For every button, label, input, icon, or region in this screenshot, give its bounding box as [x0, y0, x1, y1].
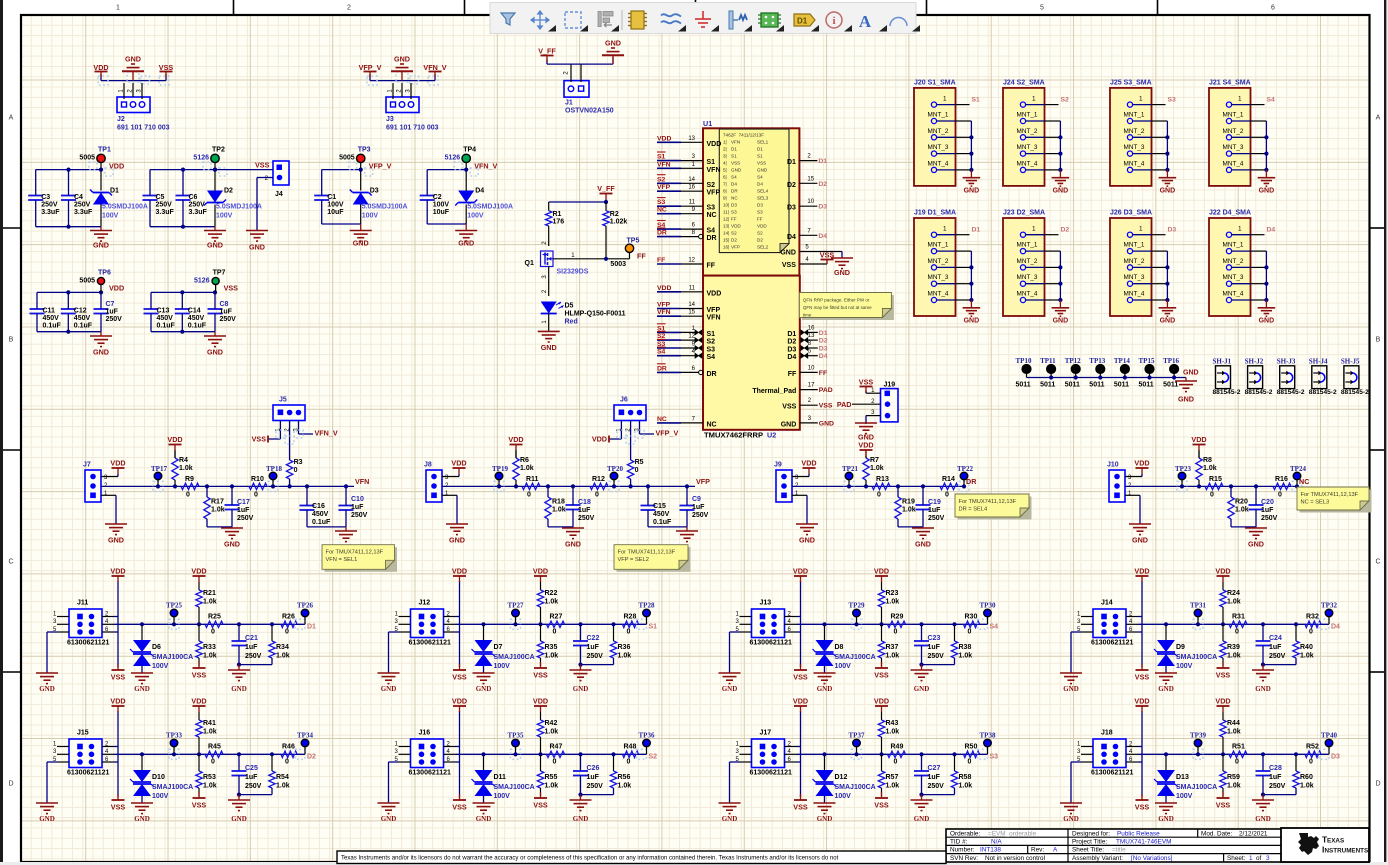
test point TP24	[1290, 465, 1306, 491]
svg-text:S3: S3	[990, 754, 999, 761]
power VSS below R39	[1216, 662, 1231, 680]
svg-text:0: 0	[285, 759, 289, 766]
test point TP22	[957, 465, 973, 491]
svg-text:VFP: VFP	[707, 307, 721, 314]
svg-text:VSS: VSS	[793, 673, 808, 682]
U2 pin 10 (FF)	[800, 365, 827, 377]
capacitor C26	[573, 752, 603, 794]
svg-text:R58: R58	[959, 774, 972, 781]
ground	[90, 168, 112, 250]
svg-text:R54: R54	[276, 774, 289, 781]
note VFN = SEL1	[325, 547, 398, 572]
svg-text:R55: R55	[545, 774, 558, 781]
wire	[792, 474, 809, 524]
svg-text:TP12: TP12	[1065, 357, 1081, 365]
svg-text:NC = SEL3: NC = SEL3	[1301, 500, 1330, 506]
resistor R50	[964, 744, 980, 766]
svg-text:FF: FF	[819, 370, 827, 377]
svg-text:GND: GND	[964, 187, 980, 194]
svg-text:D1: D1	[110, 188, 119, 195]
svg-text:GND: GND	[914, 685, 930, 693]
connector J7	[83, 462, 108, 503]
wire	[548, 526, 573, 528]
wire	[307, 526, 346, 528]
ground below C23	[911, 665, 933, 693]
svg-text:R32: R32	[1306, 614, 1319, 621]
svg-text:0: 0	[968, 629, 972, 636]
svg-text:DR: DR	[966, 477, 977, 486]
svg-text:VSS: VSS	[819, 403, 833, 410]
TVS diode D3	[350, 170, 408, 224]
resistor R45	[197, 744, 223, 766]
resistor R44 (to VDD)	[1220, 712, 1241, 754]
resistor R26	[281, 614, 297, 636]
svg-text:R43: R43	[886, 720, 899, 727]
wire	[442, 485, 695, 487]
svg-text:VFP: VFP	[657, 184, 671, 191]
power VSS below R59	[1216, 792, 1231, 810]
power VDD at J6	[592, 435, 609, 444]
resistor R34	[269, 622, 290, 664]
svg-text:0.1uF: 0.1uF	[74, 323, 93, 330]
test point TP33	[166, 732, 182, 760]
svg-text:A: A	[9, 115, 14, 122]
svg-text:1.0k: 1.0k	[203, 783, 217, 790]
svg-text:VSS: VSS	[533, 671, 548, 680]
svg-text:100V: 100V	[102, 213, 119, 220]
svg-text:R23: R23	[886, 590, 899, 597]
svg-text:1.0k: 1.0k	[959, 783, 973, 790]
svg-text:TP27: TP27	[508, 602, 524, 610]
svg-text:FF: FF	[757, 217, 763, 222]
svg-text:TP29: TP29	[849, 602, 865, 610]
svg-text:1: 1	[1032, 226, 1036, 233]
svg-text:R5: R5	[635, 459, 644, 466]
svg-text:VSS: VSS	[782, 262, 796, 269]
svg-text:250V: 250V	[74, 202, 91, 209]
svg-text:VSS: VSS	[874, 671, 889, 680]
svg-text:GND: GND	[476, 685, 492, 693]
svg-text:GND: GND	[964, 318, 980, 325]
U2 pin 8 (D3)	[801, 341, 828, 353]
svg-text:100V: 100V	[1176, 793, 1193, 800]
svg-text:250V: 250V	[587, 783, 604, 790]
svg-text:S2: S2	[757, 231, 763, 236]
U2 pin 3 (GND)	[800, 416, 834, 428]
power VSS at J5	[252, 435, 268, 444]
power VSS below R35	[533, 662, 548, 680]
capacitor C22	[573, 622, 603, 664]
resistor R52	[1305, 744, 1321, 766]
svg-text:450V: 450V	[157, 315, 174, 322]
svg-text:VDD: VDD	[874, 567, 889, 576]
svg-text:0: 0	[553, 759, 557, 766]
svg-text:0: 0	[1235, 629, 1239, 636]
wire	[101, 474, 118, 524]
svg-text:5.0SMDJ100A: 5.0SMDJ100A	[102, 204, 148, 211]
svg-text:VDD: VDD	[707, 290, 722, 297]
svg-text:MNT_2: MNT_2	[1124, 258, 1145, 265]
U2 pin 1 (S1)	[657, 324, 702, 335]
capacitor C6	[176, 170, 208, 227]
resistor R59 (to VSS)	[1220, 754, 1241, 796]
svg-text:1: 1	[943, 226, 947, 233]
svg-text:10: 10	[808, 365, 815, 371]
ground	[204, 332, 226, 357]
svg-text:1.0k: 1.0k	[959, 653, 973, 660]
resistor R15	[1205, 476, 1223, 499]
svg-text:16: 16	[688, 185, 695, 191]
test point TP14	[1114, 357, 1130, 389]
svg-text:S1: S1	[757, 154, 763, 159]
svg-text:S3: S3	[731, 210, 737, 215]
svg-text:1uF: 1uF	[220, 309, 233, 316]
svg-text:time: time	[803, 313, 812, 318]
svg-text:N/A: N/A	[991, 839, 1002, 846]
svg-text:100V: 100V	[494, 793, 511, 800]
svg-text:VSS: VSS	[757, 161, 766, 166]
svg-text:5.0SMDJ100A: 5.0SMDJ100A	[362, 204, 408, 211]
svg-text:D5: D5	[565, 303, 574, 310]
U1 pin 4 (VSS)	[782, 257, 827, 269]
resistor R5	[627, 459, 643, 489]
power VDD at J15	[110, 697, 125, 713]
ground	[329, 527, 357, 555]
svg-text:GND: GND	[1248, 540, 1264, 549]
svg-text:FF: FF	[637, 251, 646, 260]
svg-text:V_FF: V_FF	[538, 47, 556, 56]
svg-text:1.0k: 1.0k	[545, 653, 559, 660]
capacitor C18	[566, 484, 595, 527]
power VDD above R24	[1215, 567, 1230, 583]
svg-text:0: 0	[211, 759, 215, 766]
svg-text:250V: 250V	[578, 515, 595, 522]
svg-text:SMAJ100CA: SMAJ100CA	[494, 784, 535, 791]
svg-text:TP39: TP39	[1190, 732, 1206, 740]
svg-text:NC: NC	[1299, 477, 1309, 486]
test point TP32	[1319, 602, 1337, 630]
svg-text:0: 0	[553, 629, 557, 636]
svg-text:250V: 250V	[1269, 783, 1286, 790]
capacitor C19	[916, 484, 945, 527]
svg-text:VDD: VDD	[109, 284, 124, 293]
TVS diode D6	[130, 622, 193, 673]
svg-text:GND: GND	[1255, 815, 1271, 823]
svg-text:TP3: TP3	[358, 147, 371, 154]
svg-text:7|: 7|	[723, 182, 727, 187]
capacitor C28	[1256, 752, 1286, 794]
svg-text:J25 S3_SMA: J25 S3_SMA	[1110, 79, 1152, 86]
wire	[47, 581, 305, 673]
svg-text:0: 0	[894, 759, 898, 766]
resistor R33 (to VSS)	[196, 624, 217, 666]
svg-text:1uF: 1uF	[578, 507, 591, 514]
svg-text:MNT_3: MNT_3	[1223, 144, 1244, 151]
svg-text:VFP_V: VFP_V	[656, 429, 679, 438]
svg-text:R28: R28	[624, 614, 637, 621]
svg-text:250V: 250V	[41, 202, 58, 209]
connector J15	[53, 730, 110, 777]
svg-text:S1: S1	[649, 624, 658, 631]
wire	[389, 581, 647, 673]
wire	[207, 526, 232, 528]
jumper SH-J3	[1277, 358, 1305, 397]
svg-text:3.3uF: 3.3uF	[156, 209, 175, 216]
svg-text:VFN: VFN	[657, 309, 671, 316]
svg-text:J3: J3	[386, 116, 394, 123]
U1 pin 10 (D3)	[799, 199, 827, 211]
svg-text:D1: D1	[797, 17, 808, 26]
svg-text:R47: R47	[550, 744, 563, 751]
svg-text:100V: 100V	[216, 213, 233, 220]
resistor R12	[590, 476, 608, 499]
ground at J7	[105, 524, 127, 545]
svg-text:0: 0	[877, 492, 881, 499]
ground	[350, 168, 372, 248]
resistor R7 (pull-up)	[863, 450, 884, 489]
svg-text:R36: R36	[618, 644, 631, 651]
svg-text:14: 14	[688, 302, 695, 308]
svg-text:SMAJ100CA: SMAJ100CA	[152, 784, 193, 791]
ground below D9	[1155, 673, 1177, 693]
connector J21	[1209, 79, 1251, 185]
svg-text:VSS: VSS	[533, 801, 548, 810]
svg-text:1: 1	[943, 96, 947, 103]
resistor R11	[522, 476, 540, 499]
svg-text:R45: R45	[208, 744, 221, 751]
power VDD above R8	[1191, 435, 1206, 458]
svg-text:J21 S4_SMA: J21 S4_SMA	[1209, 79, 1251, 86]
svg-text:TP1: TP1	[98, 147, 111, 154]
power VDD at J8	[451, 459, 466, 475]
power VSS below R33	[192, 662, 207, 680]
svg-text:D1: D1	[757, 147, 763, 152]
wire	[542, 267, 549, 297]
svg-text:10uF: 10uF	[433, 209, 450, 216]
svg-text:1.0k: 1.0k	[886, 599, 900, 606]
svg-text:1.0k: 1.0k	[886, 729, 900, 736]
svg-text:3.3uF: 3.3uF	[74, 209, 93, 216]
svg-text:GND: GND	[573, 685, 589, 693]
svg-text:R18: R18	[552, 499, 565, 506]
svg-text:GND: GND	[449, 536, 465, 545]
svg-text:61300621121: 61300621121	[67, 640, 110, 647]
svg-text:TP22: TP22	[957, 465, 973, 473]
wire	[1045, 235, 1063, 308]
svg-text:1uF: 1uF	[245, 644, 258, 651]
svg-text:D7: D7	[494, 644, 503, 651]
svg-text:C1: C1	[327, 194, 336, 201]
svg-text:VDD: VDD	[109, 162, 124, 171]
U1 pin 13 (VDD)	[657, 135, 703, 142]
svg-text:GND: GND	[1160, 318, 1176, 325]
svg-text:5011: 5011	[1040, 382, 1055, 389]
svg-text:16|: 16|	[723, 245, 729, 250]
U2 pin 12 (S2)	[657, 332, 702, 343]
svg-text:GND: GND	[1053, 187, 1069, 194]
test point TP25	[166, 602, 182, 630]
svg-text:S4: S4	[990, 624, 999, 631]
svg-text:S2: S2	[707, 339, 716, 346]
U2 pin 16 (D1)	[801, 325, 828, 337]
svg-text:VDD: VDD	[110, 697, 125, 706]
wire	[47, 711, 305, 803]
svg-text:OSTVN02A150: OSTVN02A150	[565, 108, 614, 115]
svg-text:2: 2	[347, 5, 351, 12]
svg-text:VFN: VFN	[707, 315, 721, 322]
svg-text:C16: C16	[312, 503, 325, 510]
svg-text:C5: C5	[156, 194, 165, 201]
svg-text:250V: 250V	[928, 515, 945, 522]
svg-text:VDD: VDD	[1191, 435, 1206, 444]
svg-text:R19: R19	[902, 499, 915, 506]
wire	[553, 226, 630, 261]
resistor R46	[281, 744, 297, 766]
svg-text:1: 1	[1032, 96, 1036, 103]
svg-text:D2: D2	[818, 181, 827, 188]
svg-text:MNT_2: MNT_2	[1124, 128, 1145, 135]
wire	[898, 526, 923, 528]
svg-text:C26: C26	[587, 765, 600, 772]
svg-text:D3: D3	[787, 347, 796, 354]
capacitor C1	[314, 170, 344, 224]
svg-text:0: 0	[1309, 629, 1313, 636]
svg-text:FF: FF	[707, 263, 716, 270]
wire	[956, 235, 974, 308]
svg-text:MNT_3: MNT_3	[1124, 274, 1145, 281]
connector J11	[53, 600, 110, 647]
svg-text:R53: R53	[203, 774, 216, 781]
svg-text:MNT_2: MNT_2	[928, 258, 949, 265]
ground below D11	[473, 803, 495, 823]
svg-text:TP36: TP36	[639, 732, 655, 740]
test point TP18	[266, 465, 282, 491]
svg-text:100V: 100V	[433, 202, 450, 209]
svg-text:VFN: VFN	[707, 167, 721, 174]
svg-text:D2: D2	[787, 339, 796, 346]
svg-text:TP16: TP16	[1163, 357, 1179, 365]
svg-text:MNT_4: MNT_4	[928, 160, 949, 167]
svg-text:VDD: VDD	[110, 459, 125, 468]
svg-text:MNT_1: MNT_1	[1124, 242, 1145, 249]
power VDD at J14	[1134, 567, 1149, 583]
test point TP35	[508, 732, 524, 760]
svg-text:1: 1	[1139, 226, 1143, 233]
test point TP30	[978, 602, 996, 630]
svg-text:0: 0	[1278, 492, 1282, 499]
svg-text:MNT_2: MNT_2	[928, 128, 949, 135]
svg-text:1uF: 1uF	[587, 644, 600, 651]
ground below D6	[131, 673, 153, 693]
connector J1	[564, 64, 614, 114]
svg-text:R38: R38	[959, 644, 972, 651]
resistor R29	[879, 614, 905, 636]
svg-text:2/12/2021: 2/12/2021	[1239, 830, 1268, 837]
svg-text:TP15: TP15	[1139, 357, 1155, 365]
svg-text:0: 0	[186, 492, 190, 499]
svg-text:C27: C27	[928, 765, 941, 772]
capacitor C24	[1256, 622, 1286, 664]
test point TP7	[194, 270, 226, 293]
resistor R17	[204, 484, 225, 527]
ground	[670, 527, 698, 555]
svg-text:R52: R52	[1306, 744, 1319, 751]
test point TP26	[295, 602, 313, 630]
resistor R25	[197, 614, 223, 636]
wire	[36, 168, 101, 229]
svg-text:J13: J13	[760, 600, 772, 607]
svg-text:TP31: TP31	[1190, 602, 1206, 610]
svg-text:R37: R37	[886, 644, 899, 651]
U1 pin 14 (S2)	[657, 175, 703, 184]
svg-text:GND: GND	[1132, 536, 1148, 545]
capacitor C7	[94, 292, 123, 331]
resistor R55 (to VSS)	[537, 754, 558, 796]
svg-text:D2: D2	[787, 182, 796, 189]
connector J10	[1107, 462, 1132, 503]
svg-text:R12: R12	[592, 476, 605, 483]
svg-text:GND: GND	[125, 55, 141, 64]
power VSS at J19	[859, 378, 874, 393]
svg-text:TP11: TP11	[1040, 357, 1056, 365]
svg-text:TMUX7462FRRP: TMUX7462FRRP	[704, 431, 763, 440]
svg-text:MNT_4: MNT_4	[1223, 160, 1244, 167]
power VSS at J15	[111, 794, 126, 812]
svg-text:MNT_1: MNT_1	[1017, 112, 1038, 119]
capacitor C13	[144, 292, 176, 331]
svg-text:S4: S4	[657, 349, 666, 356]
svg-text:D2: D2	[757, 238, 763, 243]
wire	[1152, 105, 1170, 178]
power VDD above R42	[533, 697, 548, 713]
svg-text:VDD: VDD	[731, 224, 741, 229]
svg-text:DR: DR	[707, 371, 717, 378]
wire	[919, 793, 954, 797]
svg-text:J19 D1_SMA: J19 D1_SMA	[914, 210, 956, 217]
svg-text:VSS: VSS	[452, 803, 467, 812]
svg-text:S3: S3	[707, 347, 716, 354]
test point TP5	[610, 238, 639, 269]
U2 pin 15 (VFN)	[657, 309, 703, 316]
svg-text:0: 0	[595, 492, 599, 499]
power VDD above R21	[191, 567, 206, 583]
svg-text:R42: R42	[545, 720, 558, 727]
svg-text:For TMUX7411,12,13F: For TMUX7411,12,13F	[618, 550, 676, 556]
svg-text:DR: DR	[657, 230, 667, 237]
svg-text:4|: 4|	[723, 161, 727, 166]
TVS diode D12	[813, 752, 876, 803]
toolbar	[490, 3, 920, 34]
ground	[963, 308, 981, 325]
svg-text:VSS: VSS	[793, 803, 808, 812]
svg-text:C11: C11	[43, 308, 56, 315]
svg-text:1uF: 1uF	[1261, 507, 1274, 514]
ground below C27	[911, 795, 933, 823]
svg-text:MNT_4: MNT_4	[1223, 291, 1244, 298]
svg-text:VFP: VFP	[707, 190, 721, 197]
svg-text:100V: 100V	[467, 213, 484, 220]
power VSS at J16	[452, 794, 467, 812]
resistor R54	[269, 752, 290, 794]
svg-text:GND: GND	[134, 685, 150, 693]
svg-text:5011: 5011	[1114, 382, 1129, 389]
svg-text:0: 0	[894, 629, 898, 636]
svg-text:NC: NC	[657, 207, 667, 214]
svg-text:VDD: VDD	[167, 435, 182, 444]
ground GND above J3	[391, 55, 413, 81]
ground at J19	[855, 423, 877, 442]
svg-text:881545-2: 881545-2	[1213, 389, 1241, 396]
